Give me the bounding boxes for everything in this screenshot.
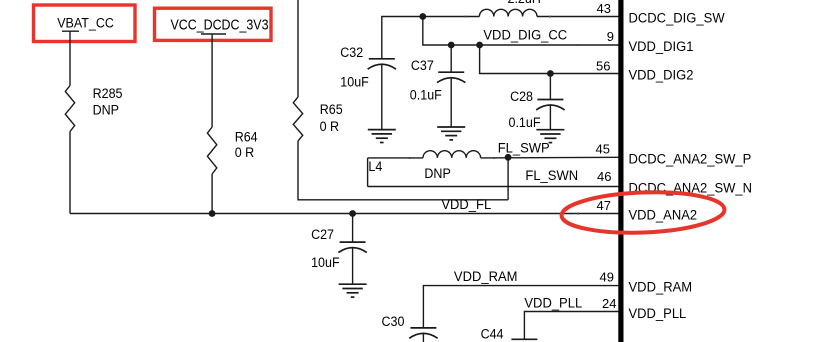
wire C32 to DCDC_DIG_SW (382, 17, 480, 59)
resistor R285 (65, 86, 74, 132)
svg-text:VDD_DIG2: VDD_DIG2 (629, 67, 694, 82)
svg-text:VBAT_CC: VBAT_CC (57, 16, 114, 31)
pin-end tick pin 9 stub (577, 44, 579, 46)
svg-text:24: 24 (602, 296, 616, 311)
pin-end tick L2 left (465, 16, 467, 18)
junction C28 on pin 56 wire (547, 70, 554, 77)
svg-text:9: 9 (607, 29, 614, 44)
annotation red box around VBAT_CC (34, 5, 136, 42)
svg-text:R65: R65 (320, 102, 343, 117)
junction C37 on VDD_DIG_CC (448, 42, 455, 49)
svg-text:VDD_FL: VDD_FL (441, 197, 491, 212)
svg-text:C37: C37 (411, 58, 434, 73)
svg-text:DNP: DNP (93, 103, 119, 118)
junction on DCDC_DIG_SW node (419, 13, 426, 20)
junction C27 on bus (349, 210, 356, 217)
wire R285 to VDD_ANA2 bus (69, 132, 71, 214)
svg-text:DNP: DNP (424, 166, 450, 181)
wire L4 to pin 45 FL_SWP (481, 156, 619, 159)
annotation red ellipse around VDD_ANA2 (561, 189, 725, 235)
svg-text:VDD_ANA2: VDD_ANA2 (629, 208, 698, 223)
svg-text:0 R: 0 R (235, 145, 255, 160)
pin-end tick pin 47 stub (577, 213, 579, 215)
svg-text:DCDC_DIG_SW: DCDC_DIG_SW (629, 11, 725, 26)
svg-text:DCDC_ANA2_SW_P: DCDC_ANA2_SW_P (629, 151, 752, 166)
svg-text:VDD_DIG_CC: VDD_DIG_CC (483, 28, 567, 43)
pin-end tick L4 left (409, 157, 411, 159)
wire R64 to VDD_ANA2 bus (211, 174, 213, 214)
svg-text:C30: C30 (382, 314, 405, 329)
ground of C27 (339, 284, 367, 297)
svg-text:VCC_DCDC_3V3: VCC_DCDC_3V3 (171, 17, 269, 33)
svg-text:L4: L4 (368, 159, 382, 174)
svg-text:VDD_DIG1: VDD_DIG1 (629, 39, 694, 54)
junction FL_SWP (505, 154, 512, 161)
svg-text:0.1uF: 0.1uF (410, 88, 442, 103)
wire VDD_ANA2 bus to pin 47 (70, 213, 619, 215)
capacitor C32 (369, 58, 395, 60)
wire VCC_DCDC_3V3 to R64 (211, 34, 213, 127)
capacitor C37 (450, 45, 452, 72)
wire L2 to pin 43 (537, 16, 619, 18)
junction VDD_DIG2 branch (476, 42, 483, 49)
ground of C32 (368, 130, 396, 143)
wire VDD_DIG_CC (423, 17, 619, 46)
wire R65 to VDD_FL (298, 141, 508, 200)
wire VDD_RAM to pin 49 (423, 286, 618, 328)
wire FL_SWN pin 46 (L4 box bottom) (368, 186, 619, 188)
svg-text:FL_SWP: FL_SWP (498, 140, 550, 155)
svg-text:C32: C32 (340, 45, 363, 60)
svg-text:0 R: 0 R (320, 119, 340, 134)
svg-text:C27: C27 (311, 227, 334, 242)
svg-text:0.1uF: 0.1uF (509, 115, 541, 130)
svg-text:VDD_RAM: VDD_RAM (629, 280, 693, 295)
junction R64 on bus (209, 210, 216, 217)
wire FL_SWP down to VDD_FL (507, 157, 509, 200)
pin-end tick L4 right (493, 157, 495, 159)
svg-text:49: 49 (600, 270, 614, 285)
svg-text:VDD_PLL: VDD_PLL (629, 306, 687, 321)
wire top rail to R65 (297, 0, 299, 97)
svg-text:VDD_RAM: VDD_RAM (454, 269, 518, 284)
svg-text:10uF: 10uF (311, 255, 340, 270)
wire VDD_PLL to pin 24 (524, 312, 618, 340)
ground of C37 (437, 127, 465, 140)
svg-text:47: 47 (597, 198, 611, 213)
inductor L4 (423, 151, 481, 158)
svg-text:46: 46 (597, 169, 611, 184)
svg-text:FL_SWN: FL_SWN (525, 168, 578, 183)
svg-text:C28: C28 (510, 89, 533, 104)
capacitor C30 (410, 327, 436, 329)
svg-text:10uF: 10uF (340, 75, 369, 90)
svg-text:C44: C44 (481, 327, 504, 342)
wire VBAT_CC to R285 (69, 31, 71, 85)
IC boundary bar (618, 0, 623, 342)
svg-text:R64: R64 (235, 130, 258, 145)
svg-text:43: 43 (597, 1, 611, 16)
resistor R64 (207, 127, 216, 174)
svg-text:45: 45 (596, 141, 610, 156)
wire to pin 56 (480, 45, 619, 74)
svg-text:56: 56 (596, 58, 610, 73)
svg-text:R285: R285 (93, 86, 123, 101)
capacitor C44 (511, 338, 537, 340)
svg-text:VDD_PLL: VDD_PLL (524, 296, 582, 311)
ground of C28 (536, 130, 564, 143)
inductor L4 box left edge (367, 158, 369, 187)
capacitor C27 (352, 214, 354, 243)
inductor L2 (479, 9, 537, 16)
wire L4 left (368, 157, 423, 159)
svg-text:2.2uH: 2.2uH (508, 0, 541, 6)
capacitor C28 (549, 74, 551, 100)
resistor R65 (293, 97, 302, 141)
annotation red box around VCC_DCDC_3V3 (155, 8, 272, 40)
pin-end tick L2 right (549, 16, 551, 18)
